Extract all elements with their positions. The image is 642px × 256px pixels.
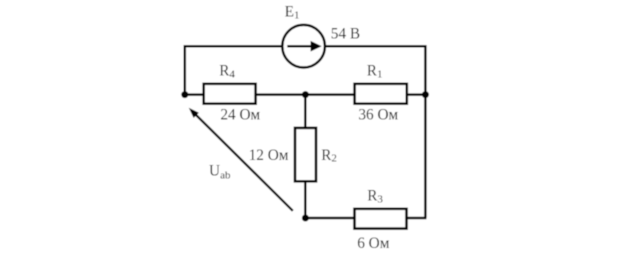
node: center junction	[302, 91, 309, 98]
svg-text:12 Ом: 12 Ом	[249, 147, 289, 164]
svg-text:36 Ом: 36 Ом	[358, 107, 398, 124]
wire: middle vertical (center node to node b)	[304, 95, 307, 218]
resistor R1	[355, 84, 407, 104]
wire: middle horizontal (node a to right node)	[185, 93, 426, 96]
wire: right vertical branch	[424, 45, 427, 218]
svg-text:54 В: 54 В	[331, 25, 360, 42]
resistor R4	[204, 84, 256, 104]
node b (bottom junction)	[302, 215, 309, 222]
wire: bottom horizontal (node b to right branch)	[305, 217, 426, 220]
wire: top horizontal (node a side to right branch)	[185, 45, 426, 48]
node a (left junction)	[181, 91, 188, 98]
svg-text:6 Ом: 6 Ом	[357, 235, 390, 252]
voltage source E1	[282, 25, 325, 68]
wire: left vertical drop to node a	[184, 45, 187, 95]
node: right junction	[422, 91, 429, 98]
svg-text:24 Ом: 24 Ом	[220, 107, 260, 124]
resistor R2	[295, 128, 316, 181]
arrow U_ab from node b toward node a	[189, 108, 293, 211]
resistor R3	[355, 209, 407, 229]
